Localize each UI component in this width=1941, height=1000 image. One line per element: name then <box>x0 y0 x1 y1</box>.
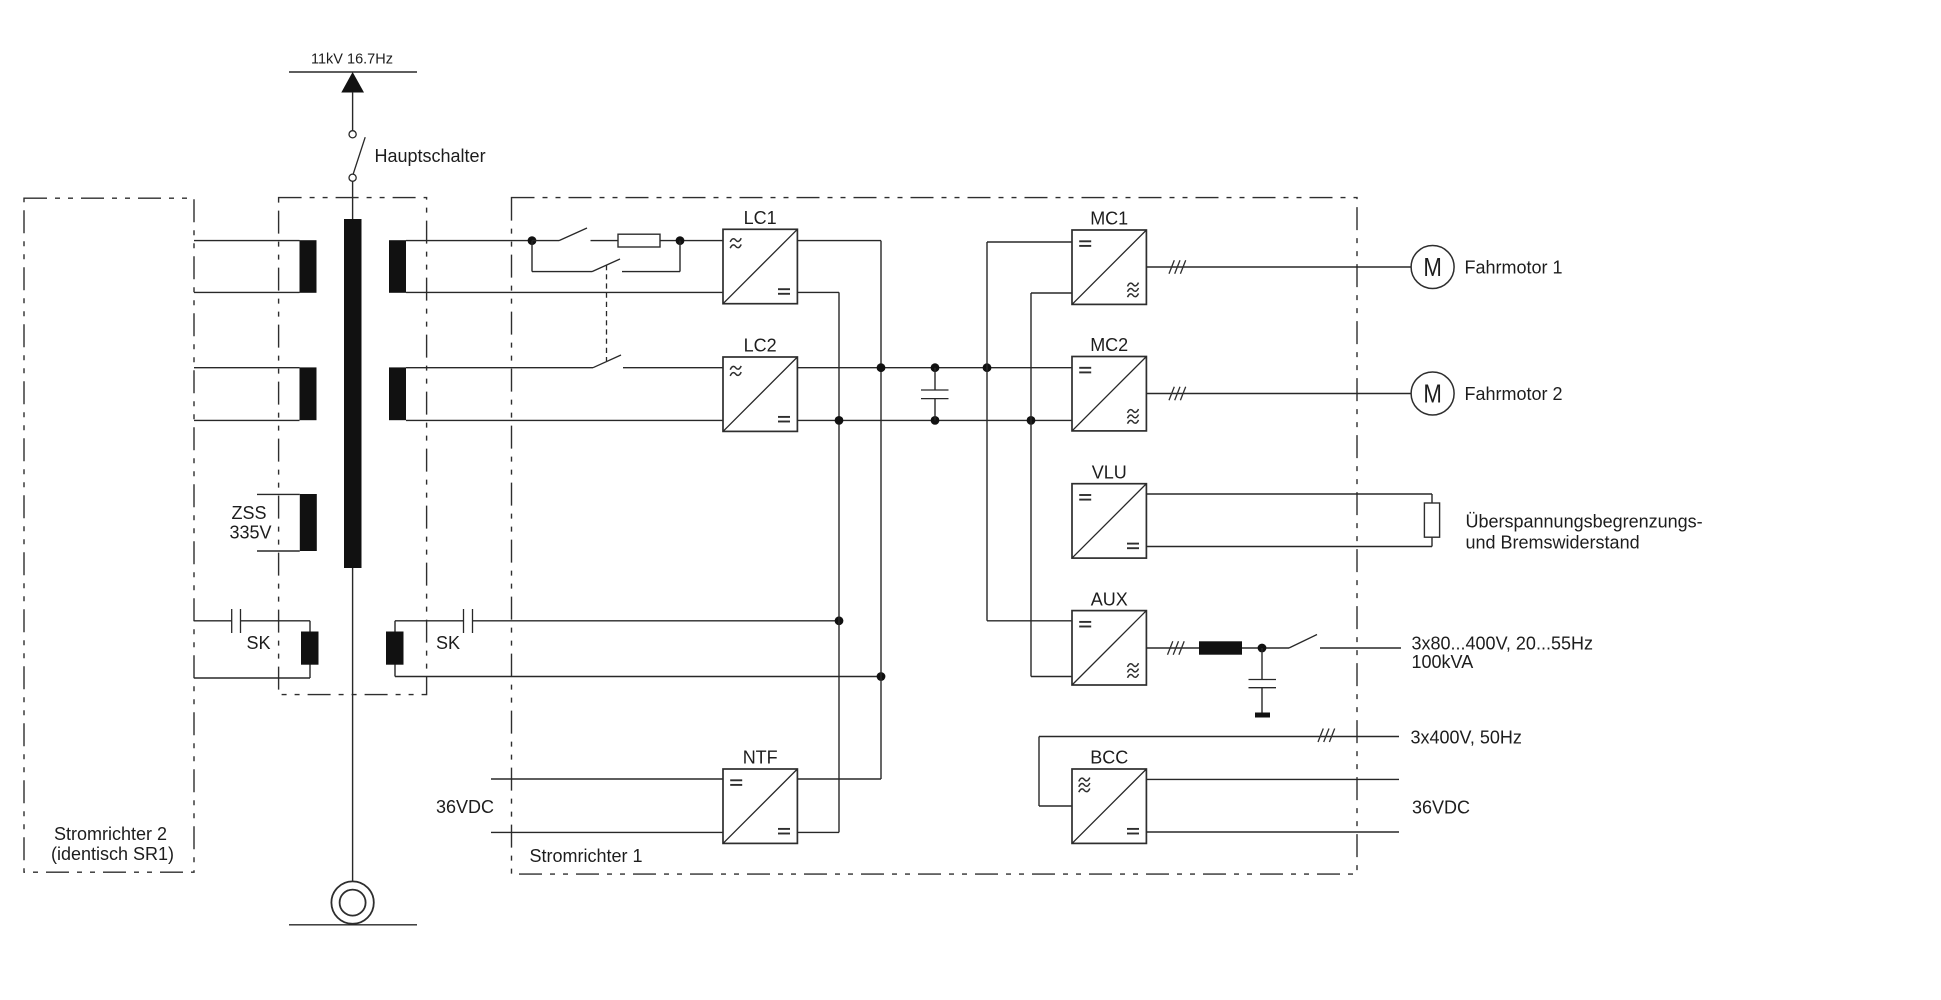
inductor AUX choke <box>1199 641 1242 654</box>
resistor charging <box>618 234 660 247</box>
wire ZSS upper stub <box>257 493 300 495</box>
converter MC2 <box>1072 357 1146 431</box>
wire secondary 1 lower to LC1 <box>406 291 723 293</box>
wire DC bus plus <box>797 367 1072 369</box>
wire secondary 2 lower to LC2 <box>406 419 723 421</box>
wire BCC out upper <box>1146 778 1399 780</box>
wire primary 2 upper <box>194 367 300 369</box>
wire bypass right rise <box>679 241 681 272</box>
wire DC bus minus <box>797 419 1072 421</box>
wire SK right lower <box>395 676 881 678</box>
svg-text:VLU: VLU <box>1092 462 1127 482</box>
junction bus <box>1027 416 1036 425</box>
svg-text:ZSS: ZSS <box>232 503 267 523</box>
switch AUX contactor <box>1289 635 1317 649</box>
wire SK left upper <box>194 620 232 622</box>
transformer primary winding 2 <box>300 367 317 420</box>
converter VLU <box>1072 484 1146 558</box>
wire mechanical link dashed <box>606 265 608 361</box>
wire primary 2 lower <box>194 419 300 421</box>
transformer winding ZSS <box>300 494 317 551</box>
wire MC1 feed plus <box>987 241 1072 243</box>
svg-text:Überspannungsbegrenzungs-: Überspannungsbegrenzungs- <box>1466 512 1703 532</box>
ground wheel-rail contact <box>331 881 373 923</box>
svg-text:LC2: LC2 <box>744 336 777 356</box>
junction bus <box>877 363 886 372</box>
capacitor SK right <box>463 609 465 633</box>
wire resistor to LC1 <box>660 240 723 242</box>
svg-text:Stromrichter 2: Stromrichter 2 <box>54 824 167 844</box>
converter NTF <box>723 769 797 843</box>
junction resistor out <box>676 236 685 245</box>
wire core to wheel ground <box>352 568 354 881</box>
wire MC1 feed minus <box>1031 292 1072 294</box>
motor M2 <box>1411 372 1454 415</box>
transformer winding SK left <box>301 632 319 665</box>
transformer winding SK right <box>386 632 404 665</box>
wire primary 1 upper <box>194 240 300 242</box>
capacitor SK left <box>231 609 233 633</box>
wire AUX out <box>1146 647 1199 649</box>
wire SK right upper b <box>473 620 840 622</box>
junction bus <box>835 416 844 425</box>
svg-text:3x80...400V, 20...55Hz: 3x80...400V, 20...55Hz <box>1412 634 1593 654</box>
svg-text:36VDC: 36VDC <box>1412 798 1470 818</box>
svg-text:LC1: LC1 <box>744 208 777 228</box>
wire 3x400V supply <box>1039 736 1399 738</box>
ground AUX filter <box>1255 713 1270 718</box>
svg-text:und Bremswiderstand: und Bremswiderstand <box>1466 533 1640 553</box>
wire LC1 out upper <box>797 240 881 242</box>
wire SK right upper <box>395 620 464 622</box>
wire LC2 isolator to LC2 <box>623 367 723 369</box>
wire ZSS lower stub <box>257 550 300 552</box>
svg-text:3x400V, 50Hz: 3x400V, 50Hz <box>1411 728 1522 748</box>
converter LC1 <box>723 229 797 303</box>
converter BCC <box>1072 769 1146 843</box>
wire choke to switch <box>1242 647 1289 649</box>
arrow feeder <box>341 72 364 93</box>
wire NTF in lower <box>491 831 723 833</box>
wire secondary 2 upper <box>406 367 593 369</box>
transformer secondary winding 2 <box>389 367 406 420</box>
svg-text:M: M <box>1423 378 1442 408</box>
wire SK left lower <box>194 677 310 679</box>
wire NTF out upper <box>797 778 881 780</box>
wire secondary 1 upper <box>406 240 532 242</box>
wire SK left upper b <box>241 620 311 622</box>
svg-text:MC2: MC2 <box>1090 335 1128 355</box>
wire NTF out lower <box>797 831 839 833</box>
resistor brake <box>1424 503 1439 537</box>
converter AUX <box>1072 611 1146 685</box>
junction SK right upper <box>835 616 844 625</box>
svg-text:AUX: AUX <box>1091 589 1128 609</box>
transformer primary winding 1 <box>300 240 317 293</box>
wire switch to transformer <box>352 181 354 219</box>
wire NTF in upper <box>491 778 723 780</box>
transformer core <box>344 219 362 568</box>
enclosure transformer <box>279 198 427 695</box>
converter MC1 <box>1072 230 1146 304</box>
wire SK right winding drop <box>394 621 396 677</box>
svg-text:Fahrmotor 2: Fahrmotor 2 <box>1465 384 1563 404</box>
svg-text:11kV 16.7Hz: 11kV 16.7Hz <box>311 52 393 68</box>
wire brake resistor upper <box>1146 493 1432 495</box>
svg-text:Stromrichter 1: Stromrichter 1 <box>530 846 643 866</box>
3-phase marks 3x400V <box>1318 729 1335 743</box>
switch charging bypass <box>532 271 592 273</box>
capacitor DC link <box>934 368 936 390</box>
wire AUX feed minus <box>1031 676 1072 678</box>
wire brake resistor lower <box>1146 546 1432 548</box>
switch Hauptschalter <box>349 131 356 138</box>
svg-text:36VDC: 36VDC <box>436 797 494 817</box>
capacitor AUX filter <box>1261 648 1263 680</box>
wire pantograph drop <box>352 92 354 131</box>
svg-text:SK: SK <box>247 633 271 653</box>
junction bus <box>931 363 940 372</box>
svg-text:MC1: MC1 <box>1090 209 1128 229</box>
svg-text:100kVA: 100kVA <box>1412 652 1474 672</box>
converter LC2 <box>723 357 797 431</box>
wire AUX feed plus <box>987 620 1072 622</box>
junction bus <box>931 416 940 425</box>
enclosure Stromrichter 2 <box>24 198 194 872</box>
enclosure Stromrichter 1 <box>512 198 1358 875</box>
wire catenary line <box>289 71 417 73</box>
3-phase marks AUX <box>1168 641 1185 655</box>
svg-text:SK: SK <box>436 633 460 653</box>
junction SK right lower <box>877 672 886 681</box>
wire SK left winding drop <box>309 621 311 678</box>
svg-text:335V: 335V <box>230 523 272 543</box>
wire motor 2 feed <box>1146 393 1412 395</box>
3-phase marks motor 2 <box>1169 387 1186 401</box>
wire bypass left drop <box>531 241 533 272</box>
svg-text:NTF: NTF <box>743 748 778 768</box>
svg-text:Hauptschalter: Hauptschalter <box>375 146 486 166</box>
svg-text:BCC: BCC <box>1090 748 1128 768</box>
junction bus <box>983 363 992 372</box>
wire LC1 out lower <box>797 291 839 293</box>
switch charging upper <box>532 240 559 242</box>
transformer secondary winding 1 <box>389 240 406 293</box>
svg-text:(identisch SR1): (identisch SR1) <box>51 844 174 864</box>
3-phase marks motor 1 <box>1169 260 1186 274</box>
switch LC2 isolator <box>593 355 621 368</box>
svg-text:Fahrmotor 1: Fahrmotor 1 <box>1465 258 1563 278</box>
svg-text:M: M <box>1423 252 1442 282</box>
junction AUX filter tap <box>1258 644 1267 653</box>
wire motor 1 feed <box>1146 266 1412 268</box>
wire primary 1 lower <box>194 291 300 293</box>
wire BCC out lower <box>1146 831 1399 833</box>
junction charging input <box>528 236 537 245</box>
motor M1 <box>1411 246 1454 289</box>
